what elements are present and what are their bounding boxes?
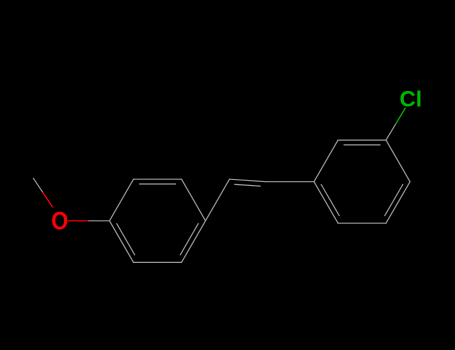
bond O-C1 carbon half xyxy=(89,220,110,222)
svg-text:Cl: Cl xyxy=(400,87,423,112)
ring 1 benzene edge V1-V2 xyxy=(110,179,134,221)
svg-text:O: O xyxy=(51,207,68,235)
ring 2 edge TL2-TR2 xyxy=(338,139,386,141)
ring 1 edge V3-V4 xyxy=(182,179,206,221)
ring 2 edge BL2-L2 xyxy=(314,182,338,224)
bond C3-Cl green half xyxy=(396,108,406,124)
ring 2 inner double R2-BR2 xyxy=(385,185,403,216)
bond O-C1 red half xyxy=(68,220,89,222)
ring 1 edge V2-V3 xyxy=(134,178,182,180)
ring 2 edge R2-BR2 xyxy=(386,182,410,224)
ring 1 inner double V6-V1 xyxy=(117,224,135,255)
ring 1 inner double V2-V3 xyxy=(140,183,176,185)
bridge bond B-L2 xyxy=(266,181,314,183)
ring 2 edge TR2-R2 xyxy=(386,140,410,182)
ring 2 edge L2-TL2 xyxy=(314,140,338,182)
ring 1 inner double V4-V5 xyxy=(180,224,198,255)
ring 1 edge V5-V6 xyxy=(134,261,182,263)
ring 1 edge V6-V1 xyxy=(110,221,134,263)
vinyl C=C main line A-B xyxy=(230,179,267,182)
ring 2 edge BR2-BL2 xyxy=(338,222,386,224)
bond CH3-O carbon half xyxy=(33,178,43,192)
ring 2 inner double BL2-L2 xyxy=(321,185,339,216)
ring 1 edge V4-V5 xyxy=(182,221,206,263)
bridge bond V4-A xyxy=(206,179,230,221)
bond C3-Cl carbon half xyxy=(386,124,396,140)
ring 2 inner double TL2-TR2 xyxy=(344,144,380,146)
vinyl C=C second line xyxy=(235,184,261,186)
bond CH3-O oxygen half (red) xyxy=(43,193,53,207)
